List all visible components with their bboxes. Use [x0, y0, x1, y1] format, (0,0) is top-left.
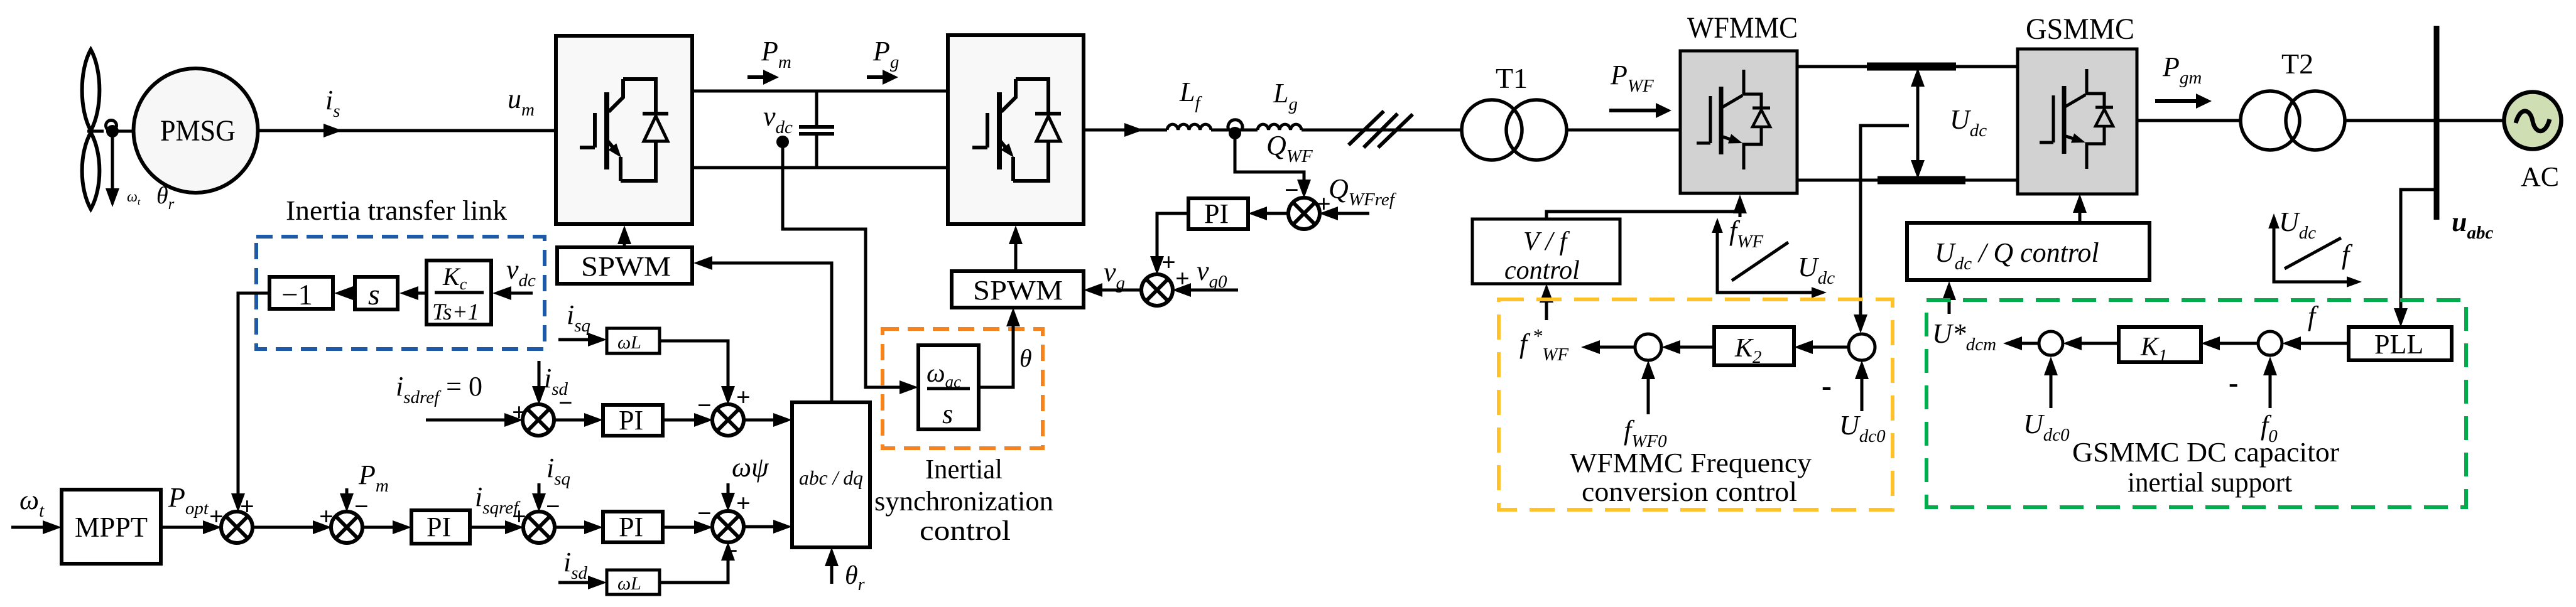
svg-text:Inertia transfer link: Inertia transfer link [286, 195, 507, 226]
svg-text:ωL: ωL [617, 573, 641, 594]
svg-text:PI: PI [619, 512, 643, 542]
svg-text:GSMMC DC capacitor: GSMMC DC capacitor [2072, 437, 2339, 468]
svg-text:−: − [697, 391, 712, 419]
svg-text:um: um [508, 83, 535, 120]
svg-text:QWFref: QWFref [1329, 173, 1397, 210]
svg-text:conversion control: conversion control [1582, 476, 1797, 507]
svg-text:Pm: Pm [358, 459, 389, 496]
svg-text:ωt: ωt [127, 189, 141, 207]
svg-text:abc / dq: abc / dq [799, 466, 863, 489]
svg-text:-: - [1822, 369, 1832, 402]
svg-text:ωψ: ωψ [732, 452, 769, 483]
svg-text:PI: PI [619, 405, 643, 436]
svg-text:isd: isd [563, 547, 588, 583]
svg-text:vg: vg [1104, 257, 1125, 293]
svg-text:V / f: V / f [1523, 227, 1570, 256]
svg-text:Udc: Udc [2279, 207, 2316, 243]
svg-text:Udc0: Udc0 [2023, 409, 2070, 445]
svg-text:fWF: fWF [1729, 215, 1763, 252]
svg-text:−: − [1285, 176, 1299, 204]
svg-text:T1: T1 [1496, 62, 1528, 94]
svg-text:isq: isq [546, 453, 570, 489]
svg-text:f: f [2342, 239, 2353, 270]
svg-text:Popt: Popt [168, 482, 209, 518]
svg-text:fWF0: fWF0 [1624, 415, 1667, 451]
svg-text:MPPT: MPPT [75, 511, 148, 543]
svg-text:f: f [2308, 301, 2319, 331]
svg-text:PI: PI [1204, 198, 1229, 229]
svg-text:WFMMC Frequency: WFMMC Frequency [1570, 448, 1812, 478]
svg-text:f *WF: f *WF [1519, 325, 1568, 365]
svg-text:vdc: vdc [506, 254, 536, 291]
svg-text:Udc0: Udc0 [1839, 410, 1886, 446]
svg-text:Lg: Lg [1273, 78, 1298, 114]
svg-text:inertial support: inertial support [2128, 467, 2292, 498]
svg-text:ωL: ωL [617, 332, 641, 353]
svg-text:is: is [325, 85, 340, 121]
svg-text:QWF: QWF [1266, 130, 1313, 166]
svg-text:uabc: uabc [2452, 207, 2493, 243]
svg-text:−: − [697, 499, 712, 527]
svg-text:Udc: Udc [1950, 104, 1987, 141]
svg-text:-: - [2229, 367, 2238, 399]
svg-text:T2: T2 [2281, 48, 2313, 80]
svg-text:ωt: ωt [19, 485, 45, 521]
svg-text:s: s [368, 278, 380, 311]
svg-text:isd: isd [544, 363, 568, 399]
svg-text:s: s [942, 399, 953, 429]
svg-text:SPWM: SPWM [973, 275, 1063, 306]
svg-text:Ts+1: Ts+1 [432, 299, 479, 325]
svg-text:GSMMC: GSMMC [2026, 13, 2134, 46]
svg-text:isdref = 0: isdref = 0 [396, 371, 482, 407]
svg-text:Pm: Pm [761, 36, 791, 72]
svg-text:Inertial: Inertial [925, 454, 1003, 485]
svg-text:Udc: Udc [1798, 252, 1835, 288]
svg-text:PMSG: PMSG [160, 114, 236, 148]
svg-text:PWF: PWF [1610, 60, 1654, 96]
svg-text:AC: AC [2521, 161, 2559, 192]
svg-text:vg0: vg0 [1197, 255, 1227, 292]
svg-text:control: control [1504, 256, 1580, 285]
svg-text:−1: −1 [281, 279, 313, 311]
svg-text:θ: θ [1019, 344, 1032, 372]
svg-text:vdc: vdc [763, 101, 793, 137]
svg-text:synchronization: synchronization [874, 486, 1053, 517]
svg-text:isq: isq [567, 299, 590, 336]
svg-text:Pgm: Pgm [2162, 51, 2202, 88]
svg-text:θr: θr [845, 561, 865, 594]
svg-text:WFMMC: WFMMC [1687, 11, 1798, 45]
svg-text:Lf: Lf [1179, 77, 1202, 113]
svg-text:Pg: Pg [872, 36, 899, 72]
svg-text:PLL: PLL [2374, 329, 2423, 360]
svg-text:PI: PI [427, 512, 451, 542]
svg-text:U*dcm: U*dcm [1932, 318, 1996, 355]
svg-text:+: + [1161, 248, 1176, 276]
svg-text:SPWM: SPWM [581, 251, 671, 282]
svg-text:control: control [920, 515, 1011, 546]
